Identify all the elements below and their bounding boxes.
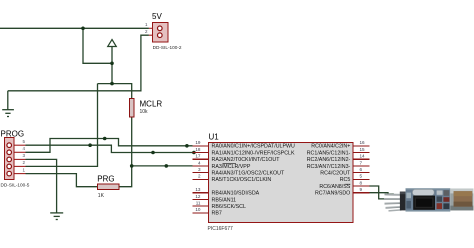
- U1 left pin stubs: [193, 146, 209, 213]
- junction node on U1 pin18 wire left: [151, 151, 155, 155]
- module header pins: [384, 194, 402, 211]
- wire PROG pin2 up to +5V rail: [26, 84, 98, 167]
- module USB shell brown label: [454, 191, 473, 206]
- resistor R2 PRG 1K: [97, 184, 119, 190]
- module crystal: [412, 189, 434, 195]
- wire U1 pin8 to USB module pin 2: [369, 186, 394, 199]
- svg-text:5V: 5V: [152, 12, 162, 21]
- svg-text:19: 19: [195, 140, 201, 145]
- op U1 PIC16F677 chip body: [209, 143, 353, 223]
- junction node on ICSPCLK wire: [88, 143, 92, 147]
- svg-text:RC4/C2OUT: RC4/C2OUT: [320, 171, 351, 177]
- wire PROG pin5 to U1 pin18 (ICSPCLK): [26, 145, 193, 152]
- resistor R1 MCLR 10k: [129, 99, 134, 118]
- svg-text:RC1/AN5/C12IN1-: RC1/AN5/C12IN1-: [307, 150, 351, 156]
- junction node on U1 pin4 wire: [165, 164, 169, 168]
- svg-text:RB5/AN11: RB5/AN11: [212, 197, 237, 203]
- svg-text:PRG: PRG: [97, 174, 114, 183]
- svg-text:RC6/AN8/SS: RC6/AN8/SS: [319, 184, 350, 190]
- svg-text:7: 7: [360, 160, 363, 165]
- junction node arrow stem / +5V rail B: [110, 82, 114, 86]
- svg-text:17: 17: [195, 154, 201, 159]
- module main IC: [413, 196, 435, 210]
- svg-text:RB7: RB7: [212, 211, 222, 217]
- svg-text:RC7/AN9/SDO: RC7/AN9/SDO: [315, 191, 350, 197]
- svg-text:5: 5: [360, 174, 363, 179]
- junction node on U1 pin18 wire right: [192, 151, 196, 155]
- overline for MCLR in RA3 pin name: [223, 163, 237, 165]
- module PCB: [406, 188, 451, 211]
- svg-text:RA3/MCLR/VPP: RA3/MCLR/VPP: [212, 164, 251, 170]
- power arrow +5V terminal: [108, 40, 117, 47]
- svg-text:3: 3: [198, 167, 201, 172]
- svg-text:U1: U1: [209, 132, 220, 141]
- U1 right pin stubs: [353, 146, 369, 193]
- junction node on U1 pin19 wire: [185, 144, 189, 148]
- connector J2 PROG DD-SIL-100-5: [4, 138, 25, 180]
- wire power arrow stem down to +5V rail B: [111, 47, 113, 84]
- U1 left pin names: [212, 144, 296, 217]
- USB-TTL module photo: [384, 188, 474, 211]
- svg-text:14: 14: [360, 154, 366, 159]
- svg-text:1K: 1K: [98, 193, 105, 199]
- svg-text:RC2/AN6/C12IN2-: RC2/AN6/C12IN2-: [307, 157, 351, 163]
- wire 5V rail from left edge to 5V connector pin 1: [0, 27, 149, 29]
- wire from node at (83,28) down and right to power arrow stem: [83, 28, 112, 63]
- U1 left pin numbers: [195, 140, 201, 212]
- connector J1 5V DD-SIL-100-2: [149, 23, 168, 43]
- junction node at 5V pin1 wire: [81, 27, 85, 31]
- svg-text:MCLR: MCLR: [140, 99, 163, 108]
- svg-text:16: 16: [360, 140, 366, 145]
- wire PROG pin1 to PRG resistor left: [26, 174, 98, 187]
- junction node MCLR net T: [130, 164, 134, 168]
- svg-text:12: 12: [195, 194, 201, 199]
- module USB shell: [450, 189, 473, 211]
- ground symbol top-left: [2, 91, 14, 117]
- svg-text:RC0/AN4/C2IN+: RC0/AN4/C2IN+: [311, 144, 350, 150]
- wire PROG pin3 to ground: [26, 159, 57, 213]
- module header base: [400, 192, 406, 211]
- svg-text:PROG: PROG: [1, 130, 25, 139]
- module right-side small components: [437, 190, 443, 194]
- svg-text:RA2/AN2/T0CKI/INT/C1OUT: RA2/AN2/T0CKI/INT/C1OUT: [212, 157, 281, 163]
- junction node arrow stem / horizontal: [110, 62, 114, 66]
- svg-text:RA0/AN0/C1IN+/ICSPDAT/ULPWU: RA0/AN0/C1IN+/ICSPDAT/ULPWU: [212, 144, 296, 150]
- svg-text:RA1/AN1/C12IN0-/VREF/ICSPCLK: RA1/AN1/C12IN0-/VREF/ICSPCLK: [212, 150, 295, 156]
- svg-text:2: 2: [198, 174, 201, 179]
- svg-text:RB4/AN10/SDI/SDA: RB4/AN10/SDI/SDA: [212, 191, 260, 197]
- wire +5V rail B to MCLR resistor top: [98, 84, 132, 99]
- module left caps: [406, 193, 411, 199]
- svg-text:10: 10: [195, 207, 201, 212]
- svg-text:13: 13: [195, 187, 201, 192]
- svg-text:RB6/SCK/SCL: RB6/SCK/SCL: [212, 204, 246, 210]
- svg-text:DD-SIL-100-5: DD-SIL-100-5: [1, 182, 30, 187]
- svg-text:15: 15: [360, 147, 366, 152]
- svg-text:9: 9: [360, 187, 363, 192]
- svg-text:6: 6: [360, 167, 363, 172]
- svg-text:8: 8: [360, 180, 363, 185]
- svg-text:PIC16F677: PIC16F677: [208, 226, 234, 232]
- U1 right pin numbers: [360, 140, 366, 192]
- ground symbol bottom (PROG pin3): [50, 213, 63, 220]
- wire MCLR net branch to U1 pin 4: [132, 165, 193, 167]
- svg-text:4: 4: [198, 160, 201, 165]
- svg-text:RA5/T1CKI/OSC1/CLKIN: RA5/T1CKI/OSC1/CLKIN: [212, 177, 272, 183]
- wire ground line to 5V connector pin 2: [8, 35, 149, 91]
- svg-text:10k: 10k: [140, 109, 149, 115]
- junction node on ICSPDAT wire: [103, 137, 107, 141]
- svg-text:RC5: RC5: [340, 177, 351, 183]
- wire PROG pin4 to U1 pin19 (ICSPDAT): [26, 139, 193, 153]
- wire U1 pin9 to USB module pin 1: [369, 193, 394, 194]
- overline for SS in RC6 pin name: [345, 183, 351, 185]
- wire MCLR resistor bottom down to PRG resistor right: [119, 117, 132, 187]
- svg-text:RC3/AN7/C12IN3-: RC3/AN7/C12IN3-: [307, 164, 351, 170]
- svg-text:DD-SIL-100-2: DD-SIL-100-2: [153, 45, 182, 50]
- svg-text:18: 18: [195, 147, 201, 152]
- svg-text:11: 11: [196, 201, 201, 206]
- U1 right pin names: [307, 144, 351, 197]
- svg-text:RA4/AN3/T1G/OSC2/CLKOUT: RA4/AN3/T1G/OSC2/CLKOUT: [212, 171, 285, 177]
